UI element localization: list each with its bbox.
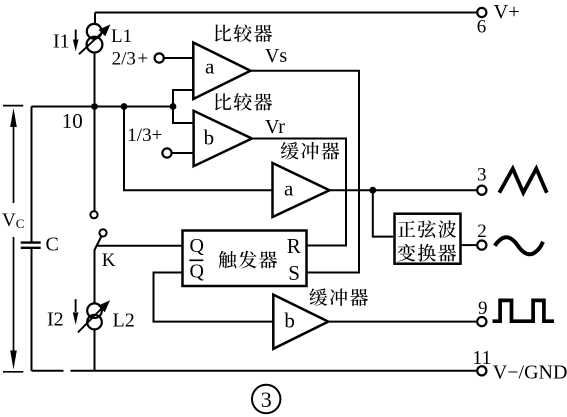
figure number circle 3 [252,385,280,413]
wire L2 bottom lead [94,329,96,370]
terminal 2/3+ input [155,53,164,62]
wire L1 lower lead to node 10 [94,52,96,106]
svg-text:6: 6 [477,17,487,38]
svg-text:S: S [288,261,300,285]
wire switch blade [95,236,102,303]
sine converter box [395,214,461,264]
wire top rail V+ [95,12,476,14]
label 正弦波 (sine) row1 [398,220,456,238]
Vc dimension annotation ticks [3,106,23,372]
svg-text:R: R [287,234,301,258]
svg-text:K: K [102,250,116,271]
junction node dot buffer-a branch [121,103,128,110]
svg-text:C: C [46,234,59,256]
current source L1 circles [87,24,102,39]
L1 adjust arrow [79,24,111,54]
svg-text:1/3+: 1/3+ [127,125,162,146]
terminal 1/3+ input [162,148,171,157]
svg-text:Q: Q [190,235,205,257]
junction node dot at node 10 [91,103,98,110]
svg-text:2: 2 [477,221,487,242]
svg-text:L1: L1 [111,26,132,47]
wire L1 upper lead [94,13,96,25]
wire buffer a output to pin 3 [330,189,477,191]
svg-text:a: a [205,55,215,79]
wire junction to sine converter input [373,190,393,236]
svg-text:11: 11 [472,347,491,369]
terminal pin 9 [477,317,486,326]
label 比较器 (comparator) for a [215,24,272,42]
L2 adjust arrow [78,300,110,332]
svg-text:V−/GND: V−/GND [493,362,567,384]
svg-text:3: 3 [477,165,487,186]
Vc dimension arrowheads [10,108,17,127]
svg-text:L2: L2 [113,310,135,332]
wire left branch lower (capacitor to bottom) [31,248,33,371]
terminal pin 2 [477,241,486,250]
wire node 10 to buffer a input [124,107,273,191]
junction node dot buffer a output to sine converter [369,187,376,194]
waveform icon triangle wave (pin 3) [499,169,547,193]
terminal pin 3 [477,186,486,195]
wire 2/3+ terminal to comparator a [164,57,194,59]
current source L2 circles [87,303,102,318]
svg-text:3: 3 [261,387,272,412]
label 缓冲器 (buffer) for a [281,142,339,160]
comparator U-b triangle [194,111,252,166]
label 变换器 (converter) row2 [398,244,457,262]
wire Vs output to S input [251,71,360,273]
waveform icon sine wave (pin 2) [495,237,543,254]
label 缓冲器 (buffer) for b [310,288,368,306]
switch K moving contact [99,229,106,236]
buffer U-b triangle [273,295,328,349]
svg-text:V+: V+ [494,1,520,23]
wire bottom rail main piece to pin 11 [71,370,477,372]
capacitor C plates [21,243,41,248]
wire node-10 rail [32,106,174,108]
wire sine converter output to pin 2 [461,244,477,246]
wire middle column node 10 to switch [94,107,96,212]
I1 current direction arrow [73,30,79,52]
svg-text:b: b [204,125,215,149]
terminal pin 6 [477,8,486,17]
wire Vr output to R input [252,139,346,246]
wire flip-flop Qbar to buffer b input [154,273,274,322]
wire switch to flip-flop Q [97,245,183,247]
svg-text:a: a [284,177,294,201]
svg-text:9: 9 [478,298,488,319]
switch K fixed contact [90,211,97,218]
I2 current direction arrow [73,299,79,325]
wire input bracket of comparators [173,90,194,123]
waveform icon square wave (pin 9) [493,300,555,321]
svg-text:10: 10 [62,109,83,133]
wire buffer b output to pin 9 [328,321,476,323]
comparator U-a triangle [193,43,250,100]
svg-text:Q: Q [190,260,205,282]
buffer U-a triangle [273,163,330,217]
junction node dot comparator bracket [170,103,177,110]
wire left branch upper (to capacitor) [31,107,33,243]
terminal pin 11 [477,366,486,375]
wire bottom rail left piece [32,370,64,372]
wire 1/3+ terminal to comparator b [172,152,194,154]
label 比较器 (comparator) for b [215,93,272,111]
svg-text:Vs: Vs [265,45,287,67]
svg-text:I2: I2 [47,309,64,331]
label 触发器 (flip-flop) [219,251,277,269]
svg-text:b: b [284,308,295,332]
svg-text:2/3 +: 2/3 + [112,48,149,69]
svg-text:I1: I1 [53,31,70,53]
svg-text:Vr: Vr [265,116,285,138]
flip-flop box [183,231,307,287]
